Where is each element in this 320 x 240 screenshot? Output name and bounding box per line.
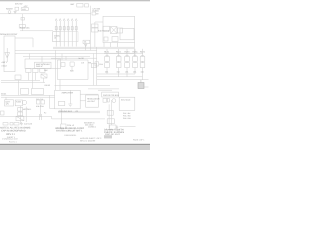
capacitor C6 xyxy=(14,123,19,126)
shield box SH1 xyxy=(53,32,78,42)
svg-text:C15 C16: C15 C16 xyxy=(36,98,43,101)
wire xyxy=(104,43,118,48)
diode D4 xyxy=(107,98,109,102)
wire xyxy=(15,49,97,51)
resistor R3 xyxy=(59,27,61,30)
wire xyxy=(23,55,90,57)
svg-text:PWR IC: PWR IC xyxy=(36,65,43,68)
page footer stamp xyxy=(104,135,112,138)
wire xyxy=(108,104,110,128)
speaker LS1 xyxy=(4,36,15,72)
connector P1 xyxy=(15,7,19,10)
wire xyxy=(41,56,43,62)
wire xyxy=(5,97,7,100)
transistor Q3 xyxy=(125,63,130,68)
capacitor C7 xyxy=(85,4,89,7)
wire xyxy=(85,44,87,51)
svg-text:PLOT 1:1: PLOT 1:1 xyxy=(9,140,17,143)
wire xyxy=(142,49,144,80)
wire xyxy=(15,53,134,55)
capacitor C5 xyxy=(10,123,13,126)
resistor R8 xyxy=(104,37,108,41)
title block text right xyxy=(88,125,124,136)
wire xyxy=(134,49,136,74)
svg-text:IGN SW: IGN SW xyxy=(15,2,22,5)
connector J2 pin 5 xyxy=(71,19,73,47)
wire xyxy=(55,84,111,86)
wire xyxy=(98,89,112,91)
svg-text:ACC: ACC xyxy=(24,5,29,8)
connector tick P2 xyxy=(40,114,42,120)
wire xyxy=(111,100,113,125)
wire xyxy=(96,47,98,85)
resistor R20 xyxy=(70,62,74,70)
wire xyxy=(140,80,142,83)
crystal X1 xyxy=(41,74,47,78)
status bar divider xyxy=(0,144,150,145)
IC U7 xyxy=(21,89,29,95)
IC U1 xyxy=(103,16,135,42)
svg-text:ECU MAIN: ECU MAIN xyxy=(121,99,131,102)
resistor R14 xyxy=(92,63,97,67)
svg-text:ANT 1: ANT 1 xyxy=(2,61,9,64)
capacitor C11 xyxy=(41,100,45,104)
amplifier A1 xyxy=(55,90,81,109)
wire xyxy=(15,38,33,47)
resistor R4 xyxy=(63,27,65,30)
wire xyxy=(54,50,56,90)
svg-text:FUSE: FUSE xyxy=(16,101,22,104)
wire xyxy=(52,118,105,120)
wire xyxy=(120,126,136,128)
wire xyxy=(126,49,128,77)
svg-text:IGN COIL: IGN COIL xyxy=(36,105,44,108)
svg-text:MUTE: MUTE xyxy=(79,57,85,60)
svg-text:R14: R14 xyxy=(99,63,102,66)
resistor R5 xyxy=(67,27,69,30)
svg-text:REV 2.1: REV 2.1 xyxy=(6,133,15,136)
svg-text:CONN 4: CONN 4 xyxy=(88,125,96,128)
transformer T1 xyxy=(111,27,118,34)
motor M2 xyxy=(22,100,26,104)
wire xyxy=(53,48,134,50)
diode D2 xyxy=(83,40,90,47)
diode D1 xyxy=(103,26,110,31)
wire xyxy=(140,80,142,85)
status bar xyxy=(0,145,150,150)
wire xyxy=(118,49,120,77)
wire xyxy=(134,43,136,57)
wire xyxy=(61,109,63,124)
connector J5 xyxy=(1,111,5,115)
svg-text:R20: R20 xyxy=(70,69,73,72)
antenna E1 xyxy=(5,48,10,62)
transistor Q5 xyxy=(140,63,145,68)
svg-text:SW1: SW1 xyxy=(22,8,26,11)
svg-text:D1: D1 xyxy=(84,41,86,44)
crystal X2 xyxy=(16,116,24,121)
IC U2 xyxy=(120,28,134,40)
ground xyxy=(116,126,119,129)
connector label box J2 xyxy=(53,32,60,42)
wire xyxy=(93,54,95,86)
wire xyxy=(65,56,67,60)
wire xyxy=(28,54,30,60)
connector J2 pin 6 xyxy=(75,19,77,47)
wire xyxy=(40,105,42,117)
svg-text:SPEAKER FRONT: SPEAKER FRONT xyxy=(0,33,18,36)
wire xyxy=(1,94,55,96)
diode D3 xyxy=(107,119,114,124)
resistor R7 xyxy=(75,27,77,30)
svg-text:FUSED: FUSED xyxy=(92,10,99,13)
connector J2 pin 1 xyxy=(55,19,57,47)
svg-text:REV 2.1 10-22-99: REV 2.1 10-22-99 xyxy=(80,139,95,142)
transistor Q4 xyxy=(133,63,138,68)
transistor Q1 xyxy=(105,63,110,68)
wire xyxy=(27,73,29,81)
wire xyxy=(80,100,85,102)
capacitor C10 xyxy=(37,100,41,104)
svg-text:+5V OUT: +5V OUT xyxy=(87,100,96,103)
connector J6 xyxy=(103,98,107,102)
svg-text:J2: J2 xyxy=(54,37,56,40)
svg-text:RADIO: RADIO xyxy=(6,8,13,11)
svg-text:PAGE 1 OF 1: PAGE 1 OF 1 xyxy=(133,139,144,142)
inductor L1 xyxy=(61,124,66,128)
resistor R16 xyxy=(18,112,23,116)
relay K6A xyxy=(141,55,144,57)
svg-text:MOTOR 1: MOTOR 1 xyxy=(23,108,32,111)
connector J4 xyxy=(138,83,144,89)
svg-text:FUSE 10A: FUSE 10A xyxy=(20,26,30,29)
svg-text:SYSTEM CIRCUIT SHT 1: SYSTEM CIRCUIT SHT 1 xyxy=(56,129,83,132)
sheet background xyxy=(0,0,150,150)
wire xyxy=(88,88,119,90)
wire xyxy=(25,107,27,122)
wire xyxy=(22,14,24,31)
wire xyxy=(20,106,22,124)
resistor R2 xyxy=(55,27,57,30)
wire xyxy=(1,82,45,84)
text labels xyxy=(0,2,146,127)
wire xyxy=(59,80,61,91)
svg-text:GROUND BUS: GROUND BUS xyxy=(59,110,73,113)
svg-text:GND1: GND1 xyxy=(1,93,6,96)
svg-text:COAX: COAX xyxy=(2,64,8,67)
connector J3 xyxy=(15,75,21,80)
svg-text:P2: P2 xyxy=(44,111,46,114)
svg-text:R10 R11 C4: R10 R11 C4 xyxy=(98,30,110,33)
resistor R1 xyxy=(19,25,25,29)
svg-text:C:\DWG\4A22.SCH: C:\DWG\4A22.SCH xyxy=(2,137,18,140)
wire xyxy=(1,96,55,98)
wire xyxy=(97,79,149,81)
relay K3 xyxy=(117,55,120,57)
svg-text:R5 R6: R5 R6 xyxy=(45,84,50,87)
resistor R6 xyxy=(71,27,73,30)
relay K6 xyxy=(92,12,96,15)
wire xyxy=(18,80,20,95)
relay K2 xyxy=(105,55,108,57)
resistor R15 xyxy=(18,108,23,112)
transistor Q2 xyxy=(116,63,121,68)
connector J2 pin 3 xyxy=(63,19,65,47)
svg-text:C22 C23: C22 C23 xyxy=(24,122,33,125)
wire xyxy=(104,52,143,54)
wire xyxy=(0,117,52,119)
wire xyxy=(43,78,45,83)
capacitor C4 xyxy=(3,123,8,126)
capacitor C3 xyxy=(58,101,64,105)
svg-text:1999 MODEL: 1999 MODEL xyxy=(64,134,77,137)
inductor L2 xyxy=(110,125,116,129)
IC U6 xyxy=(102,92,119,97)
fuse F1 xyxy=(21,18,24,21)
wire xyxy=(80,93,98,95)
wire xyxy=(97,73,135,75)
wire xyxy=(58,112,100,114)
connector J2 pin 4 xyxy=(67,19,69,47)
relay K7 xyxy=(92,24,99,28)
IC U4 xyxy=(32,89,44,95)
wire xyxy=(97,76,143,78)
ground xyxy=(20,122,23,125)
fuse F2 xyxy=(15,100,22,106)
svg-text:REGULATOR: REGULATOR xyxy=(87,97,100,100)
lamp DS1 xyxy=(8,11,11,14)
resistor R17 xyxy=(107,110,113,115)
resistor R9 xyxy=(112,37,118,42)
relay K8 xyxy=(92,28,99,32)
junction node A xyxy=(14,11,17,14)
module M1 xyxy=(25,59,61,69)
relay K4 xyxy=(125,55,128,57)
note text block bottom left xyxy=(0,126,30,139)
footer text xyxy=(2,137,144,143)
wire xyxy=(90,6,92,51)
wire xyxy=(53,46,134,48)
resistor R13 xyxy=(40,68,45,72)
capacitor C9 xyxy=(95,62,99,66)
resistor R21 xyxy=(61,63,65,67)
svg-text:CAP IN MICROFARAD: CAP IN MICROFARAD xyxy=(1,130,26,133)
wire xyxy=(144,86,149,88)
motor M3 xyxy=(112,99,116,103)
battery BT1 xyxy=(5,100,14,106)
wire xyxy=(51,57,97,59)
resistor R12 xyxy=(33,68,38,72)
resistor R11 xyxy=(26,68,31,72)
regulator VR1 xyxy=(86,95,99,107)
wire xyxy=(95,22,103,47)
wire xyxy=(61,54,63,61)
wire xyxy=(1,79,40,81)
wire xyxy=(50,95,55,108)
svg-text:AMPLIFIER: AMPLIFIER xyxy=(62,92,74,95)
wire xyxy=(106,49,108,74)
title block text center xyxy=(55,127,84,137)
module box M2 outline xyxy=(57,60,88,80)
wire xyxy=(58,110,100,112)
IC U5 xyxy=(119,97,135,110)
relay K5 xyxy=(133,55,136,57)
ground xyxy=(68,90,72,107)
IC U3 xyxy=(35,62,52,68)
svg-text:PWR DISTR BOX: PWR DISTR BOX xyxy=(103,94,120,97)
wire xyxy=(20,30,53,32)
svg-text:PIN 3 GN: PIN 3 GN xyxy=(123,117,131,120)
wire xyxy=(31,73,33,89)
switch S1 xyxy=(21,8,28,11)
wire xyxy=(0,13,91,15)
wire xyxy=(34,73,36,81)
window top edge xyxy=(0,0,150,2)
capacitor C2 xyxy=(118,28,123,33)
connector J2 pin 2 xyxy=(59,19,61,47)
capacitor C1 xyxy=(77,3,83,7)
